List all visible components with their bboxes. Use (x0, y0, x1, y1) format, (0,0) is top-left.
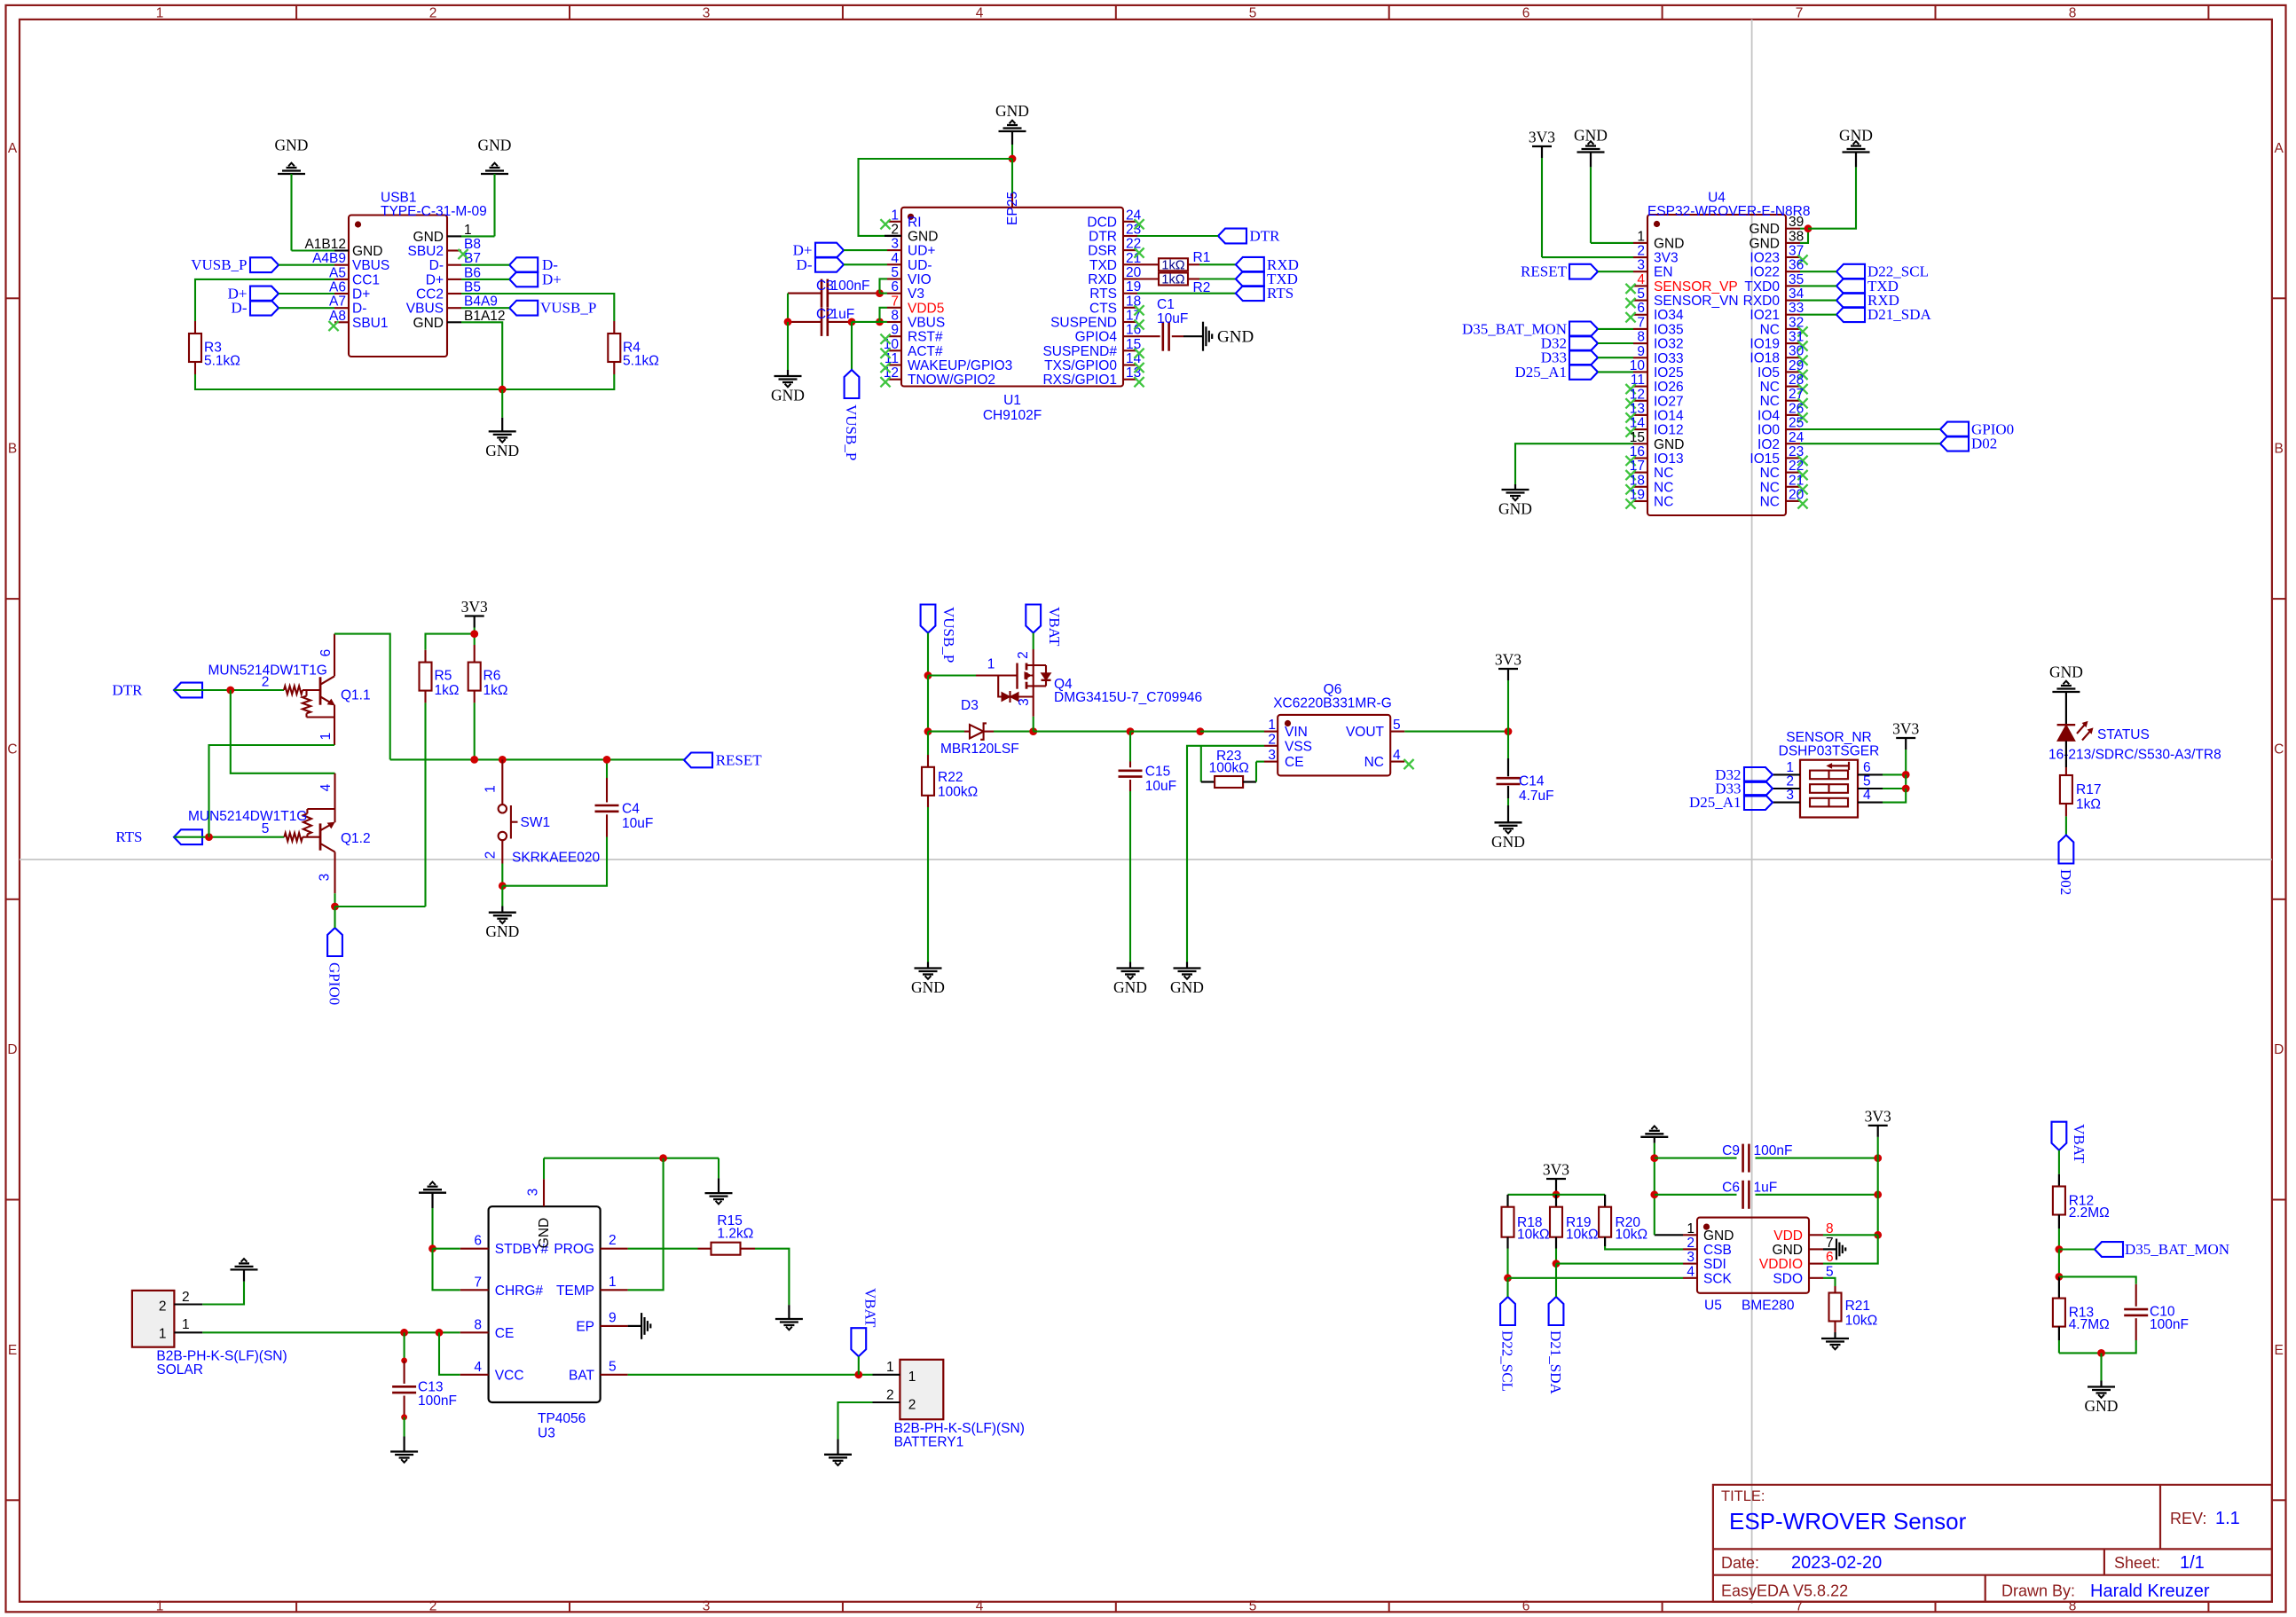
svg-text:13: 13 (1630, 401, 1645, 416)
wire (2065, 816, 2067, 835)
wire (1655, 1158, 1737, 1159)
wire (1404, 731, 1508, 733)
svg-text:2: 2 (886, 1387, 894, 1402)
svg-text:5: 5 (1863, 774, 1871, 789)
wire (1800, 229, 1808, 243)
svg-text:ACT#: ACT# (908, 344, 943, 359)
resistor R15 (698, 1213, 756, 1255)
wire (1883, 774, 1906, 789)
resistor R22 (922, 755, 978, 807)
svg-text:R22: R22 (938, 770, 963, 785)
svg-text:NC: NC (1760, 466, 1780, 481)
svg-text:XC6220B331MR-G: XC6220B331MR-G (1273, 696, 1392, 711)
svg-text:6: 6 (318, 649, 334, 657)
net label RTS (Q1) (115, 828, 202, 845)
svg-text:Harald Kreuzer: Harald Kreuzer (2090, 1582, 2210, 1601)
junction (1505, 727, 1513, 735)
wire (1800, 314, 1836, 316)
svg-text:VBUS: VBUS (908, 316, 945, 331)
svg-text:R1: R1 (1193, 250, 1211, 265)
resistor R19 (1550, 1195, 1599, 1249)
svg-text:TXD0: TXD0 (1744, 279, 1780, 294)
wire (461, 294, 614, 321)
wire (334, 893, 335, 907)
svg-text:U5: U5 (1704, 1299, 1722, 1314)
svg-text:GND: GND (1217, 328, 1254, 347)
wire (994, 731, 1034, 733)
svg-text:5: 5 (891, 265, 899, 280)
wire (2059, 1276, 2136, 1283)
svg-text:IO0: IO0 (1757, 423, 1780, 438)
power 3V3 (Q1) (461, 598, 488, 628)
svg-text:7: 7 (1796, 6, 1804, 21)
IC U4 ESP32-WROVER-E-N8R8 (1625, 191, 1810, 516)
svg-text:3V3: 3V3 (1654, 251, 1679, 266)
svg-text:TITLE:: TITLE: (1721, 1488, 1765, 1504)
junction (924, 671, 932, 679)
svg-text:VBUS: VBUS (406, 302, 444, 317)
wire (1823, 1278, 1836, 1286)
svg-text:GND: GND (1703, 1228, 1734, 1244)
svg-text:1: 1 (318, 733, 334, 741)
svg-text:D-: D- (352, 302, 366, 317)
svg-text:6: 6 (1637, 301, 1645, 316)
title block (1713, 1485, 2272, 1602)
svg-text:C: C (2274, 742, 2284, 757)
ground GND (divider) (2085, 1381, 2119, 1416)
wire (927, 732, 929, 755)
junction (1874, 1190, 1882, 1198)
svg-text:VUSB_P: VUSB_P (940, 607, 957, 663)
svg-text:5: 5 (609, 1359, 617, 1374)
transistor Q1.1 (208, 634, 371, 745)
svg-text:VBUS: VBUS (352, 258, 389, 273)
svg-text:C1: C1 (1157, 297, 1175, 312)
junction (1805, 224, 1812, 232)
svg-text:1: 1 (1687, 1221, 1694, 1236)
svg-text:100nF: 100nF (2150, 1317, 2189, 1332)
svg-text:5.1kΩ: 5.1kΩ (204, 354, 240, 369)
svg-text:D02: D02 (1971, 436, 1997, 452)
wire (628, 1374, 873, 1376)
svg-text:GND: GND (1750, 222, 1780, 237)
wire (1129, 791, 1131, 962)
wire (2100, 1353, 2102, 1380)
wire (1655, 1234, 1683, 1236)
junction (401, 1414, 407, 1420)
ground GND (R21) (1821, 1338, 1849, 1349)
net label TXD (1236, 271, 1298, 287)
diode D3 MBR120LSF (940, 698, 1019, 757)
svg-text:11: 11 (1631, 373, 1645, 388)
wire (195, 374, 614, 389)
svg-text:CH9102F: CH9102F (983, 408, 1042, 423)
svg-text:9: 9 (1637, 344, 1645, 359)
wire (2058, 1150, 2060, 1174)
ground GND (U1 EP) (995, 102, 1029, 131)
svg-text:VOUT: VOUT (1346, 725, 1385, 740)
junction (1127, 727, 1135, 735)
wire (1598, 371, 1633, 373)
IC U5 BME280 (1683, 1218, 1834, 1314)
ground GND (U4 pins38/39) (1839, 127, 1873, 183)
wire (852, 321, 887, 323)
capacitor C14 (1497, 774, 1554, 805)
svg-text:2.2MΩ: 2.2MΩ (2069, 1205, 2110, 1221)
wire (1905, 750, 1907, 774)
wire (1823, 1235, 1878, 1263)
svg-text:IO12: IO12 (1654, 423, 1684, 438)
svg-text:R17: R17 (2076, 782, 2101, 797)
svg-text:4: 4 (1863, 788, 1871, 803)
wire (1542, 158, 1633, 257)
svg-text:D-: D- (232, 300, 248, 317)
svg-text:17: 17 (1630, 459, 1645, 474)
svg-text:10kΩ: 10kΩ (1517, 1227, 1550, 1242)
wire (2065, 741, 2067, 767)
svg-text:V3: V3 (908, 287, 924, 302)
wire (788, 321, 852, 323)
wire (880, 308, 888, 322)
LED STATUS 16-213/SDRC/S530-A3/TR8 (2048, 722, 2221, 763)
wire (474, 628, 476, 646)
wire (461, 322, 502, 389)
svg-text:NC: NC (1760, 380, 1780, 395)
svg-text:6: 6 (1522, 1599, 1530, 1614)
svg-text:Drawn By:: Drawn By: (2001, 1582, 2075, 1600)
svg-text:C14: C14 (1519, 774, 1545, 789)
net flag D25_A1 (1514, 364, 1598, 381)
svg-text:R21: R21 (1845, 1299, 1870, 1314)
svg-text:8: 8 (1637, 330, 1645, 345)
net label DTR (1218, 228, 1280, 245)
svg-text:4: 4 (1637, 272, 1645, 287)
svg-text:1: 1 (987, 657, 995, 672)
svg-text:E: E (2275, 1343, 2284, 1358)
ground GND (SW1) (485, 886, 519, 940)
svg-text:3: 3 (703, 6, 711, 21)
wire (502, 837, 607, 886)
svg-text:GND: GND (1654, 437, 1684, 452)
net flag D22_SCL (BME) (1499, 1297, 1516, 1392)
net flag VBAT (battery) (851, 1288, 878, 1356)
svg-text:GND: GND (2085, 1397, 2119, 1415)
net flag D32 (1541, 335, 1598, 352)
svg-text:4: 4 (976, 1599, 984, 1614)
svg-text:ESP-WROVER Sensor: ESP-WROVER Sensor (1729, 1508, 1967, 1535)
svg-text:TP4056: TP4056 (538, 1411, 586, 1426)
svg-text:RTS: RTS (115, 828, 142, 845)
svg-text:NC: NC (1654, 466, 1673, 481)
svg-text:IO18: IO18 (1750, 351, 1780, 366)
svg-text:3: 3 (1687, 1250, 1694, 1265)
svg-text:MUN5214DW1T1G: MUN5214DW1T1G (188, 809, 307, 824)
svg-text:8: 8 (474, 1317, 482, 1332)
svg-text:SUSPEND#: SUSPEND# (1042, 344, 1117, 359)
svg-text:4: 4 (1687, 1264, 1694, 1279)
svg-text:GND: GND (485, 442, 519, 459)
net flag D33 (1541, 349, 1598, 366)
svg-text:IO4: IO4 (1757, 408, 1780, 423)
wire (433, 1248, 460, 1250)
resistor R23 (1201, 746, 1264, 788)
svg-text:VIO: VIO (908, 272, 932, 287)
junction (1874, 1231, 1882, 1239)
wire (1033, 633, 1034, 650)
wire (543, 1158, 545, 1180)
svg-text:E: E (8, 1343, 17, 1358)
resistor R17 (2060, 767, 2102, 816)
wire (202, 1331, 460, 1333)
wire (927, 807, 929, 962)
svg-text:1kΩ: 1kΩ (1161, 273, 1184, 287)
svg-text:EP: EP (1005, 207, 1020, 225)
svg-text:4: 4 (976, 6, 984, 21)
junction (784, 318, 792, 326)
svg-text:CC1: CC1 (352, 272, 380, 287)
wire (1800, 285, 1836, 287)
svg-text:D-: D- (429, 258, 444, 273)
svg-text:23: 23 (1789, 444, 1804, 459)
svg-text:3V3: 3V3 (461, 598, 488, 616)
svg-text:SCK: SCK (1703, 1271, 1733, 1286)
wire (1188, 278, 1236, 279)
svg-text:VBAT: VBAT (2071, 1124, 2088, 1164)
net flag D- (right) (509, 256, 558, 273)
svg-text:ESP32-WROVER-E-N8R8: ESP32-WROVER-E-N8R8 (1647, 204, 1810, 219)
ground GND (C1) (1203, 322, 1254, 351)
capacitor C9 (1722, 1143, 1792, 1173)
wire (1823, 1234, 1878, 1236)
junction (436, 1329, 444, 1337)
svg-text:Q1.2: Q1.2 (341, 831, 371, 846)
wire (1800, 271, 1836, 272)
svg-text:GND: GND (1491, 833, 1525, 851)
svg-text:UD-: UD- (908, 258, 932, 273)
resistor R1 (1159, 250, 1210, 272)
junction (1902, 771, 1910, 779)
svg-text:GND: GND (908, 230, 938, 245)
wire (1654, 1143, 1655, 1236)
junction (1197, 727, 1205, 735)
wire (1591, 153, 1633, 243)
wire (1200, 731, 1264, 733)
svg-text:C4: C4 (622, 802, 640, 817)
power 3V3 (BME right) (1865, 1107, 1891, 1137)
wire (426, 634, 475, 650)
svg-text:GND: GND (1750, 236, 1780, 251)
svg-text:2023-02-20: 2023-02-20 (1791, 1553, 1882, 1573)
wire (431, 1208, 433, 1249)
wire (2058, 1228, 2060, 1250)
net label RTS (1236, 285, 1293, 302)
wire (1605, 1246, 1683, 1249)
power 3V3 (BME280) (1543, 1161, 1569, 1191)
wire (606, 759, 608, 778)
svg-text:RTS: RTS (1089, 287, 1117, 302)
svg-text:1: 1 (182, 1317, 190, 1332)
svg-text:IO34: IO34 (1654, 308, 1684, 323)
wire (1655, 1194, 1737, 1196)
junction (1029, 727, 1037, 735)
svg-text:25: 25 (1005, 192, 1020, 207)
svg-text:3V3: 3V3 (1865, 1107, 1891, 1125)
svg-text:DMG3415U-7_C709946: DMG3415U-7_C709946 (1054, 690, 1202, 705)
svg-text:GND: GND (478, 137, 512, 154)
svg-text:16-213/SDRC/S530-A3/TR8: 16-213/SDRC/S530-A3/TR8 (2048, 747, 2221, 762)
svg-text:REV:: REV: (2170, 1510, 2206, 1527)
wire (828, 293, 880, 294)
resistor R21 (1829, 1286, 1878, 1332)
wire (628, 1158, 664, 1291)
svg-text:5: 5 (1249, 6, 1257, 21)
svg-text:GND: GND (537, 1218, 552, 1248)
wire (1507, 786, 1509, 822)
svg-text:GND: GND (413, 230, 444, 245)
svg-text:3: 3 (1637, 258, 1645, 273)
junction (848, 318, 856, 326)
svg-text:10uF: 10uF (622, 816, 653, 831)
resistor R4 (608, 321, 659, 374)
ground GND (C14) (1491, 822, 1525, 851)
svg-text:D22_SCL: D22_SCL (1499, 1330, 1516, 1392)
wire (1756, 1194, 1878, 1196)
svg-text:IO13: IO13 (1654, 451, 1684, 467)
wire (718, 1158, 719, 1179)
junction (1874, 1154, 1882, 1162)
capacitor C13 (392, 1361, 457, 1417)
net label RXD (1236, 256, 1299, 273)
svg-text:USB1: USB1 (381, 191, 417, 206)
svg-text:2: 2 (262, 675, 270, 690)
svg-text:GPIO4: GPIO4 (1075, 330, 1118, 345)
svg-text:8: 8 (891, 309, 899, 324)
svg-text:GND: GND (1773, 1243, 1803, 1258)
wire (1877, 1137, 1879, 1235)
wire (1507, 732, 1509, 777)
svg-text:4.7uF: 4.7uF (1519, 789, 1554, 804)
svg-text:IO2: IO2 (1757, 437, 1780, 452)
junction (1504, 1274, 1512, 1282)
wire (1508, 1194, 1606, 1196)
wire (928, 731, 964, 733)
wire (788, 293, 822, 294)
wire (1137, 235, 1218, 237)
wire (195, 279, 334, 321)
svg-text:RXD: RXD (1088, 272, 1117, 287)
svg-text:3V3: 3V3 (1529, 129, 1555, 146)
svg-text:100nF: 100nF (418, 1393, 457, 1409)
junction (2097, 1349, 2105, 1357)
svg-text:3V3: 3V3 (1543, 1161, 1569, 1179)
svg-text:GND: GND (352, 244, 382, 259)
junction (2056, 1245, 2064, 1253)
wire (334, 907, 335, 928)
svg-text:D35_BAT_MON: D35_BAT_MON (2125, 1241, 2229, 1258)
wire (2059, 1340, 2136, 1353)
svg-text:Q1.1: Q1.1 (341, 688, 371, 703)
resistor R18 (1502, 1195, 1550, 1249)
junction (1553, 1190, 1561, 1198)
connector SOLAR B2B-PH-K-S (132, 1290, 287, 1378)
svg-text:28: 28 (1789, 373, 1804, 388)
resistor R20 (1599, 1195, 1647, 1246)
wire (2065, 692, 2067, 725)
IC U3 TP4056 (460, 1179, 628, 1440)
svg-text:CTS: CTS (1089, 301, 1117, 316)
wire (544, 1158, 719, 1159)
svg-text:D: D (7, 1042, 17, 1057)
junction (499, 756, 507, 764)
svg-text:IO5: IO5 (1757, 365, 1780, 381)
net flag D25_A1 (sensor) (1689, 794, 1773, 811)
wire (927, 633, 929, 676)
svg-text:D02: D02 (2057, 869, 2074, 895)
svg-text:R6: R6 (484, 669, 501, 684)
svg-text:D21_SDA: D21_SDA (1547, 1330, 1564, 1395)
wire (928, 674, 976, 676)
ground GND (R15) (775, 1305, 803, 1330)
net label TXD (U4) (1836, 278, 1899, 294)
net flag D33 (sensor) (1715, 781, 1773, 797)
wire (1137, 278, 1159, 279)
svg-text:15: 15 (1126, 337, 1141, 352)
wire (1506, 1278, 1508, 1297)
svg-text:STATUS: STATUS (2097, 727, 2150, 742)
net flag VUSB_P (power) (921, 605, 957, 663)
svg-text:EP: EP (576, 1319, 594, 1334)
svg-text:NC: NC (1760, 394, 1780, 409)
resistor R12 (2053, 1174, 2110, 1228)
svg-text:D+: D+ (352, 287, 370, 302)
junction (470, 756, 478, 764)
svg-text:U3: U3 (538, 1426, 555, 1441)
svg-text:A: A (2275, 141, 2284, 156)
net flag VBAT (monitor) (2052, 1122, 2088, 1164)
junction (429, 1244, 436, 1252)
svg-text:EasyEDA V5.8.22: EasyEDA V5.8.22 (1721, 1582, 1848, 1600)
net flag D+ (228, 286, 279, 302)
svg-text:2: 2 (182, 1290, 190, 1305)
capacitor C15 (1119, 762, 1177, 795)
svg-text:GND: GND (771, 387, 805, 404)
net flag D- (232, 300, 279, 317)
svg-text:CE: CE (495, 1326, 515, 1341)
wire (1598, 342, 1633, 344)
svg-text:3V3: 3V3 (1495, 651, 1521, 669)
junction (499, 882, 507, 890)
wire (174, 689, 284, 691)
svg-text:DTR: DTR (1250, 228, 1281, 245)
svg-text:100kΩ: 100kΩ (938, 785, 978, 800)
svg-text:27: 27 (1789, 387, 1804, 402)
svg-text:1.2kΩ: 1.2kΩ (717, 1227, 753, 1242)
svg-text:NC: NC (1364, 755, 1384, 770)
resistor R13 (2053, 1276, 2110, 1340)
svg-text:TXS/GPIO0: TXS/GPIO0 (1044, 358, 1117, 373)
svg-text:4: 4 (318, 783, 334, 791)
svg-text:TXD: TXD (1089, 258, 1117, 273)
svg-text:TYPE-C-31-M-09: TYPE-C-31-M-09 (381, 204, 487, 219)
net flag VUSB_P (U1) (843, 322, 860, 460)
wire (859, 159, 1013, 236)
svg-text:WAKEUP/GPIO3: WAKEUP/GPIO3 (908, 358, 1012, 373)
svg-text:1kΩ: 1kΩ (2076, 797, 2101, 812)
junction (470, 630, 478, 638)
wire (1034, 731, 1130, 733)
svg-text:GND: GND (1113, 978, 1147, 996)
net flag D32 (sensor) (1715, 766, 1773, 783)
